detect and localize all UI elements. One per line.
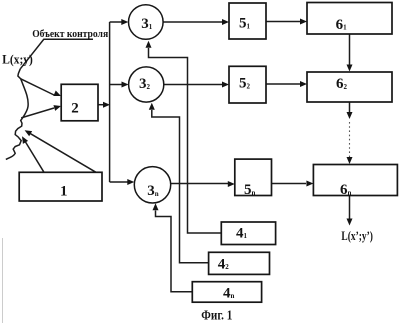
svg-text:2: 2 [71, 101, 79, 117]
svg-text:Фиг. 1: Фиг. 1 [201, 308, 232, 323]
svg-text:L(x’;y’): L(x’;y’) [341, 229, 373, 243]
svg-text:L(x;y): L(x;y) [2, 51, 33, 66]
svg-text:1: 1 [60, 183, 68, 199]
svg-text:Объект контроля: Объект контроля [32, 29, 108, 40]
